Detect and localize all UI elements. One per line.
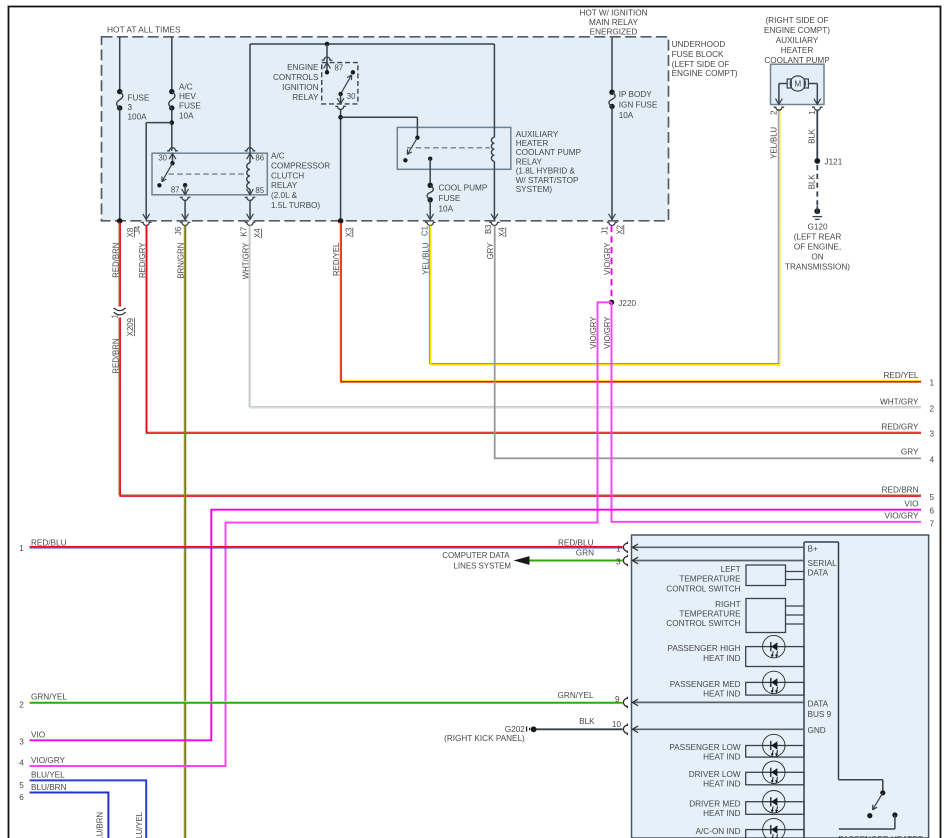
svg-text:W/ START/STOP: W/ START/STOP xyxy=(516,176,579,185)
svg-text:ENGINE COMPT): ENGINE COMPT) xyxy=(764,26,830,35)
svg-text:IP BODY: IP BODY xyxy=(619,90,653,99)
svg-text:M: M xyxy=(794,80,801,89)
svg-text:GRN/YEL: GRN/YEL xyxy=(558,691,594,700)
svg-text:HEATER: HEATER xyxy=(781,46,814,55)
svg-text:BLU/YEL: BLU/YEL xyxy=(31,771,65,780)
svg-text:BUS 9: BUS 9 xyxy=(808,710,832,719)
svg-text:3: 3 xyxy=(930,430,935,439)
svg-text:(RIGHT KICK PANEL): (RIGHT KICK PANEL) xyxy=(444,734,525,743)
svg-text:CONTROL SWITCH: CONTROL SWITCH xyxy=(666,619,740,628)
svg-text:10A: 10A xyxy=(619,111,634,120)
svg-text:FUSE: FUSE xyxy=(179,102,201,111)
svg-text:10A: 10A xyxy=(439,204,454,213)
svg-text:A/C: A/C xyxy=(271,152,285,161)
svg-text:GRN/YEL: GRN/YEL xyxy=(31,693,67,702)
svg-text:BLU/BRN: BLU/BRN xyxy=(96,812,105,838)
svg-text:10: 10 xyxy=(612,720,622,729)
svg-text:HEV: HEV xyxy=(179,92,196,101)
svg-text:5: 5 xyxy=(19,781,24,790)
svg-text:ENGINE: ENGINE xyxy=(287,63,319,72)
svg-text:2: 2 xyxy=(19,700,24,709)
svg-text:DRIVER LOW: DRIVER LOW xyxy=(689,770,741,779)
svg-text:VIO/GRY: VIO/GRY xyxy=(603,316,612,349)
svg-text:X2: X2 xyxy=(615,225,624,235)
svg-text:MAIN RELAY: MAIN RELAY xyxy=(589,18,639,27)
svg-text:X3: X3 xyxy=(344,228,353,238)
svg-text:100A: 100A xyxy=(128,113,148,122)
svg-text:J1: J1 xyxy=(601,226,610,234)
svg-text:1: 1 xyxy=(616,544,621,553)
svg-text:PASSENGER LOW: PASSENGER LOW xyxy=(669,743,741,752)
svg-text:HEAT IND: HEAT IND xyxy=(703,690,741,699)
svg-text:TEMPERATURE: TEMPERATURE xyxy=(679,610,741,619)
svg-text:1.5L TURBO): 1.5L TURBO) xyxy=(271,201,320,210)
svg-text:UNDERHOOD: UNDERHOOD xyxy=(672,40,726,49)
svg-text:HEAT IND: HEAT IND xyxy=(703,780,741,789)
svg-text:VIO/GRY: VIO/GRY xyxy=(885,512,920,521)
svg-text:AUXILIARY: AUXILIARY xyxy=(776,36,819,45)
svg-text:ON: ON xyxy=(811,253,823,262)
svg-text:DATA: DATA xyxy=(808,700,829,709)
svg-text:4: 4 xyxy=(930,455,935,464)
svg-text:FUSE BLOCK: FUSE BLOCK xyxy=(672,50,724,59)
svg-text:COMPUTER DATA: COMPUTER DATA xyxy=(442,551,510,560)
svg-text:(1.8L HYBRID &: (1.8L HYBRID & xyxy=(516,167,576,176)
svg-text:VIO: VIO xyxy=(31,731,45,740)
svg-text:WHT/GRY: WHT/GRY xyxy=(880,397,919,406)
svg-text:2: 2 xyxy=(930,405,935,414)
svg-text:VIO/GRY: VIO/GRY xyxy=(589,316,598,349)
svg-text:7: 7 xyxy=(930,519,935,528)
svg-text:30: 30 xyxy=(158,154,167,163)
svg-text:GND: GND xyxy=(808,726,826,735)
svg-text:FUSE: FUSE xyxy=(128,93,150,102)
svg-text:RELAY: RELAY xyxy=(292,93,319,102)
svg-text:1: 1 xyxy=(808,111,817,115)
svg-text:IGNITION: IGNITION xyxy=(282,83,318,92)
svg-text:B3: B3 xyxy=(484,225,493,235)
svg-text:BLU/YEL: BLU/YEL xyxy=(135,811,144,838)
svg-text:4: 4 xyxy=(19,759,24,768)
svg-text:LINES SYSTEM: LINES SYSTEM xyxy=(454,562,511,571)
svg-text:(RIGHT SIDE OF: (RIGHT SIDE OF xyxy=(765,16,828,25)
svg-text:1: 1 xyxy=(930,379,935,388)
svg-text:RELAY: RELAY xyxy=(516,157,543,166)
svg-text:J121: J121 xyxy=(825,157,843,166)
svg-text:COOLANT PUMP: COOLANT PUMP xyxy=(516,148,582,157)
svg-text:J4: J4 xyxy=(133,225,142,234)
svg-text:CLUTCH: CLUTCH xyxy=(271,171,304,180)
svg-text:RED/YEL: RED/YEL xyxy=(883,371,918,380)
svg-text:GRY: GRY xyxy=(901,447,919,456)
svg-text:RED/GRY: RED/GRY xyxy=(881,422,919,431)
svg-text:2: 2 xyxy=(770,111,779,115)
svg-text:B+: B+ xyxy=(808,544,818,553)
svg-text:3: 3 xyxy=(616,557,621,566)
svg-text:G202: G202 xyxy=(505,725,525,734)
svg-text:30: 30 xyxy=(347,92,356,101)
svg-text:87: 87 xyxy=(335,64,344,73)
svg-text:J220: J220 xyxy=(618,299,636,308)
svg-text:G120: G120 xyxy=(807,223,827,232)
svg-text:BLU/BRN: BLU/BRN xyxy=(31,783,67,792)
svg-text:HOT W/ IGNITION: HOT W/ IGNITION xyxy=(579,8,647,17)
svg-text:RED/BLU: RED/BLU xyxy=(31,538,67,547)
svg-text:SYSTEM): SYSTEM) xyxy=(516,185,553,194)
svg-text:COMPRESSOR: COMPRESSOR xyxy=(271,161,330,170)
svg-text:X4: X4 xyxy=(253,228,262,238)
svg-text:3: 3 xyxy=(128,103,133,112)
svg-text:RED/BRN: RED/BRN xyxy=(882,485,919,494)
svg-text:YEL/BLU: YEL/BLU xyxy=(770,126,779,158)
svg-text:SERIAL: SERIAL xyxy=(808,559,838,568)
svg-text:TRANSMISSION): TRANSMISSION) xyxy=(785,263,850,272)
svg-text:85: 85 xyxy=(255,186,264,195)
svg-text:HEAT IND: HEAT IND xyxy=(703,753,741,762)
svg-text:VIO/GRY: VIO/GRY xyxy=(31,756,66,765)
svg-text:GRN: GRN xyxy=(576,549,594,558)
svg-text:COOL PUMP: COOL PUMP xyxy=(439,184,488,193)
svg-text:(LEFT REAR: (LEFT REAR xyxy=(794,233,842,242)
svg-text:CONTROLS: CONTROLS xyxy=(273,73,319,82)
svg-text:9: 9 xyxy=(615,695,620,704)
svg-text:K7: K7 xyxy=(240,227,249,237)
svg-text:VIO: VIO xyxy=(904,500,918,509)
svg-text:A/C: A/C xyxy=(179,83,193,92)
svg-text:86: 86 xyxy=(255,154,264,163)
svg-text:RIGHT: RIGHT xyxy=(715,600,740,609)
svg-text:A/C-ON IND: A/C-ON IND xyxy=(696,827,741,836)
svg-text:5: 5 xyxy=(930,493,935,502)
svg-text:ENGINE COMPT): ENGINE COMPT) xyxy=(672,69,738,78)
svg-text:DATA: DATA xyxy=(808,569,829,578)
svg-text:PASSENGER HIGH: PASSENGER HIGH xyxy=(667,644,740,653)
svg-text:6: 6 xyxy=(19,793,24,802)
svg-text:HEAT IND: HEAT IND xyxy=(703,654,741,663)
svg-text:(2.0L &: (2.0L & xyxy=(271,191,298,200)
svg-text:3: 3 xyxy=(19,737,24,746)
svg-text:RED/BLU: RED/BLU xyxy=(558,538,594,547)
svg-text:ENERGIZED: ENERGIZED xyxy=(590,28,638,37)
svg-text:BLK: BLK xyxy=(579,717,595,726)
svg-text:BLK: BLK xyxy=(808,128,817,144)
svg-text:X209: X209 xyxy=(126,318,135,336)
svg-text:DRIVER MED: DRIVER MED xyxy=(689,799,740,808)
svg-text:1: 1 xyxy=(19,544,24,553)
svg-text:HEAT IND: HEAT IND xyxy=(703,809,741,818)
svg-text:PASSENGER MED: PASSENGER MED xyxy=(670,680,741,689)
svg-text:CONTROL SWITCH: CONTROL SWITCH xyxy=(666,584,740,593)
svg-text:RELAY: RELAY xyxy=(271,181,298,190)
svg-text:10A: 10A xyxy=(179,111,194,120)
svg-text:J6: J6 xyxy=(174,227,183,235)
svg-text:BLK: BLK xyxy=(808,174,817,190)
svg-text:AUXILIARY: AUXILIARY xyxy=(516,130,559,139)
svg-text:X4: X4 xyxy=(497,227,506,237)
svg-text:TEMPERATURE: TEMPERATURE xyxy=(679,575,741,584)
svg-text:(LEFT SIDE OF: (LEFT SIDE OF xyxy=(672,60,730,69)
svg-text:HOT AT ALL TIMES: HOT AT ALL TIMES xyxy=(107,25,181,35)
svg-text:IGN FUSE: IGN FUSE xyxy=(619,101,658,110)
svg-text:87: 87 xyxy=(171,185,180,194)
svg-text:OF ENGINE,: OF ENGINE, xyxy=(794,243,841,252)
svg-text:FUSE: FUSE xyxy=(439,194,461,203)
svg-text:C1: C1 xyxy=(421,226,430,236)
svg-text:6: 6 xyxy=(930,507,935,516)
svg-text:HEATER: HEATER xyxy=(516,139,549,148)
svg-text:LEFT: LEFT xyxy=(721,565,741,574)
